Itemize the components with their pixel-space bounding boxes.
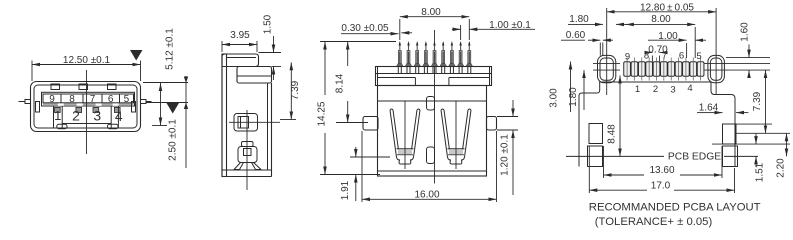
- extension 3.95 left: [221, 41, 223, 52]
- pad center ticks: [627, 58, 701, 81]
- body left edge: [221, 54, 223, 177]
- dimension 7.39 line (view2): [290, 62, 292, 119]
- svg-text:1.80: 1.80: [569, 14, 589, 25]
- svg-text:6: 6: [108, 94, 114, 105]
- dimension 8.14 line upper: [347, 42, 349, 67]
- extension 13.60 right: [721, 146, 723, 178]
- datum triangle top: [130, 50, 143, 61]
- body view3: [378, 86, 487, 177]
- dimension 8.48 line: [619, 76, 621, 157]
- peg body: [238, 147, 257, 163]
- peg top bar: [242, 142, 254, 147]
- svg-text:8: 8: [69, 94, 75, 105]
- dimension 8.14 line lower: [347, 101, 349, 123]
- band lower line left: [378, 77, 416, 79]
- pin separator 1: [60, 94, 62, 103]
- dimension 14.25 line lower: [324, 133, 326, 175]
- pcb edge line left: [566, 155, 664, 157]
- flange: [222, 54, 227, 177]
- latch window inner: [238, 117, 249, 129]
- left tulip window: [398, 149, 412, 154]
- extension line shell top right: [143, 82, 188, 84]
- dimension 13.60 line: [604, 174, 645, 176]
- dimension 0.30 leader right: [401, 32, 412, 34]
- top dimple 1: [51, 84, 60, 90]
- dimension 14.25 line upper: [324, 42, 326, 96]
- tongue inner band: [43, 94, 134, 103]
- extension oval top right: [726, 57, 770, 59]
- dimension 8.00 line (view4): [626, 23, 695, 25]
- dimension 1.20 upper arrow: [512, 100, 514, 117]
- extension 17.0 left: [588, 146, 590, 193]
- svg-text:5.12 ±0.1: 5.12 ±0.1: [165, 28, 176, 70]
- shell band: [376, 67, 492, 86]
- tongue outer: [42, 92, 135, 106]
- svg-text:3.00: 3.00: [549, 88, 560, 108]
- contact square 2: [76, 107, 82, 112]
- right mount pad: [723, 124, 737, 144]
- extension tulip bottom: [350, 156, 390, 158]
- extension 1.51: [712, 143, 790, 145]
- pin separator 3: [101, 94, 103, 103]
- left oval centerline: [606, 8, 608, 95]
- center bracket upper: [427, 97, 435, 111]
- datum triangle side: [167, 103, 180, 114]
- extension 17.0 right: [734, 168, 736, 193]
- svg-text:7: 7: [90, 94, 96, 105]
- shell outer: [31, 82, 141, 132]
- extension tab top right: [497, 116, 518, 118]
- svg-text:1: 1: [54, 108, 61, 123]
- extension line left: [31, 61, 33, 82]
- svg-text:1: 1: [635, 84, 640, 95]
- dimension 1.80 top arrow left: [594, 23, 603, 25]
- bottom dimple pill left: [57, 124, 67, 128]
- extension 2.20: [736, 132, 790, 134]
- dimension 3.95 line: [222, 44, 257, 46]
- pin 8: [457, 41, 464, 66]
- dimension 0.70 leader: [651, 56, 653, 63]
- dimension 1.20 lower arrow: [512, 130, 514, 140]
- svg-text:8.48: 8.48: [607, 124, 618, 144]
- svg-text:5: 5: [696, 51, 701, 62]
- left board lock tab: [363, 117, 378, 131]
- left spring stub: [25, 100, 31, 104]
- arrow 2.50 upper: [184, 77, 188, 84]
- svg-text:0.70: 0.70: [648, 45, 668, 56]
- svg-text:8.00: 8.00: [651, 14, 671, 25]
- left tulip centerline: [404, 101, 406, 169]
- band lower line right: [449, 77, 490, 79]
- dimension 1.80 left line: [583, 70, 585, 110]
- right board lock tab: [487, 117, 497, 131]
- dimension 0.60 leader: [561, 39, 585, 41]
- svg-text:1.51: 1.51: [755, 162, 766, 182]
- right tulip window: [449, 149, 463, 154]
- svg-text:9: 9: [625, 52, 630, 63]
- center bracket lower: [427, 147, 435, 164]
- svg-text:17.0: 17.0: [651, 181, 671, 192]
- extension pad top right: [736, 123, 772, 125]
- dimension 1.00 leader right: [469, 28, 535, 30]
- oval waist lines left: [593, 62, 620, 64]
- body bottom inner: [378, 170, 487, 172]
- pin 7: [449, 41, 456, 66]
- pin separator 4: [119, 94, 121, 103]
- solder pads: [624, 62, 704, 77]
- extension line 5.12 bottom: [152, 125, 167, 127]
- svg-text:14.25: 14.25: [317, 101, 328, 126]
- svg-text:6: 6: [679, 51, 684, 62]
- extension pin8: [460, 25, 462, 40]
- pocket left wall 2: [61, 106, 63, 128]
- peg left leg: [234, 163, 244, 170]
- dimension 2.20 line: [786, 133, 788, 156]
- extension bar top: [272, 66, 282, 68]
- svg-text:7.39: 7.39: [290, 80, 301, 100]
- tongue bottom edge: [43, 103, 134, 106]
- pin 9: [466, 41, 473, 66]
- svg-text:1.50: 1.50: [263, 14, 274, 34]
- dimension 1.91 lower arrow: [355, 175, 357, 202]
- pin 2: [405, 41, 412, 66]
- dimension 1.60 lower arrow: [748, 70, 750, 76]
- pin 3: [414, 41, 421, 66]
- dimension 0.60 arrow left: [588, 39, 600, 41]
- dimension 1.00 arrow right: [695, 39, 706, 41]
- extension 8.14 bottom: [336, 122, 368, 124]
- pcb edge line right: [724, 155, 758, 157]
- latch centerline: [229, 121, 280, 123]
- extension 1.00 line: [686, 43, 688, 58]
- svg-text:4: 4: [687, 83, 692, 94]
- dimension 0.70 arrow right: [660, 52, 667, 54]
- pin 4: [423, 41, 430, 66]
- left edge notch: [588, 146, 603, 167]
- extension line right: [140, 61, 142, 82]
- dimension 1.20 tail: [512, 140, 514, 196]
- dimension 3.00 line: [570, 62, 572, 113]
- top dimple 3: [108, 84, 117, 90]
- extension 7.39 bottom: [280, 119, 296, 121]
- bar mid line: [237, 75, 272, 77]
- pin 6: [440, 41, 447, 66]
- left oval outer: [598, 55, 616, 82]
- extension 13.60 left: [603, 146, 605, 178]
- dimension 0.60 arrow right: [603, 39, 613, 41]
- extension 3.95 right: [256, 41, 258, 52]
- dimension 8.00 line (view3): [400, 16, 470, 18]
- extension cap top: [259, 52, 282, 54]
- svg-text:8.14: 8.14: [335, 73, 346, 93]
- dimension 7.39 line (view4): [765, 70, 767, 133]
- dimension 1.80 top leader: [568, 23, 594, 25]
- right spring stub: [141, 100, 147, 104]
- top dimple 2: [79, 84, 88, 90]
- top bar: [237, 67, 272, 84]
- extension 8.00 view4 right: [694, 27, 696, 58]
- body bottom line: [222, 169, 272, 171]
- svg-text:1.80: 1.80: [568, 87, 579, 107]
- svg-text:2.20: 2.20: [776, 158, 787, 178]
- extension pin tips: [320, 41, 396, 43]
- band mid line: [376, 73, 492, 75]
- extension line latch right: [146, 102, 188, 104]
- contact square 4: [114, 107, 120, 112]
- svg-text:2: 2: [72, 108, 80, 124]
- extension 16.00 right: [496, 131, 498, 202]
- svg-text:1.60: 1.60: [740, 22, 751, 42]
- dimension 1.51 upper arrow: [755, 133, 757, 144]
- svg-text:2.50 ±0.1: 2.50 ±0.1: [168, 119, 179, 161]
- svg-text:PCB EDGE: PCB EDGE: [668, 152, 721, 163]
- dimension 0.30 leader left: [341, 33, 399, 35]
- oval waist lines right: [703, 62, 770, 64]
- right inner spring: [132, 102, 136, 113]
- dimension 17.0 line: [589, 189, 647, 191]
- left stub whisker: [19, 101, 26, 103]
- band center notch: [414, 78, 416, 86]
- extension 8.00 left: [399, 19, 401, 40]
- pin separator 2: [82, 94, 84, 103]
- pocket right wall 1: [110, 106, 112, 128]
- pocket right wall 2: [117, 106, 119, 128]
- extension 8.00 right: [468, 19, 470, 40]
- dimension 1.00 leader left: [452, 28, 461, 30]
- left mount pad: [589, 124, 603, 144]
- svg-text:5: 5: [124, 94, 130, 105]
- dimension 1.60 upper arrow: [748, 45, 750, 58]
- dimension 1.80 top arrow right: [616, 23, 628, 25]
- extension 0.60 lines: [599, 43, 601, 56]
- svg-text:0.30 ±0.05: 0.30 ±0.05: [341, 23, 389, 34]
- body right edge inner: [267, 83, 269, 170]
- extension 16.00 left: [361, 131, 363, 202]
- dimension 1.64 arrow left: [697, 112, 710, 114]
- footprint outline: [579, 82, 735, 167]
- pin 1: [396, 41, 403, 66]
- svg-text:7.39: 7.39: [752, 91, 763, 111]
- svg-text:9: 9: [49, 94, 55, 105]
- cavity floor line: [62, 123, 111, 125]
- dimension 2.50 line: [185, 76, 187, 168]
- dimension 1.50 lower arrow: [273, 67, 275, 81]
- svg-text:1.20 ±0.1: 1.20 ±0.1: [500, 134, 511, 176]
- band inner right: [489, 67, 491, 86]
- extension tab bottom right: [497, 129, 518, 131]
- latch window outer: [234, 114, 258, 132]
- right stub whisker: [146, 101, 152, 103]
- svg-text:1.91: 1.91: [340, 180, 351, 200]
- svg-text:1.64: 1.64: [699, 103, 719, 114]
- band inner left: [377, 67, 379, 86]
- right oval outer: [708, 55, 725, 82]
- svg-text:RECOMMANDED PCBA LAYOUT: RECOMMANDED PCBA LAYOUT: [589, 202, 761, 214]
- centerline view2: [246, 110, 248, 190]
- dimension 12.50 line: [32, 64, 141, 66]
- svg-text:3: 3: [670, 85, 675, 96]
- peg head: [244, 149, 252, 156]
- body seam: [378, 100, 487, 102]
- pin slot lines: [398, 67, 471, 74]
- body bottom seam: [222, 176, 272, 178]
- dimension 12.80 line: [607, 11, 716, 13]
- svg-text:3: 3: [93, 108, 101, 124]
- body right edge outer: [271, 83, 273, 177]
- svg-text:0.60: 0.60: [566, 30, 586, 41]
- right oval inner: [710, 58, 722, 80]
- centerline view1: [86, 70, 88, 154]
- svg-text:(TOLERANCE+ ± 0.05): (TOLERANCE+ ± 0.05): [595, 216, 713, 228]
- peg right leg: [252, 163, 262, 170]
- dimension 16.00 line: [362, 198, 497, 200]
- dimension 0.70 arrow left: [646, 52, 653, 54]
- dimension 1.00 arrow left: [648, 39, 687, 41]
- latch inner wall: [240, 117, 242, 129]
- pocket left wall 1: [53, 106, 55, 128]
- svg-text:3.95: 3.95: [230, 30, 250, 41]
- centerline view3: [434, 30, 436, 184]
- shell inner line: [34, 85, 137, 128]
- tongue edge notches: [58, 103, 119, 106]
- extension body bottom left: [320, 174, 380, 176]
- svg-text:2: 2: [653, 84, 658, 95]
- arrow 2.50 lower: [184, 103, 188, 110]
- left oval inner: [600, 58, 613, 80]
- cap inner line: [227, 57, 257, 59]
- dimension 5.12 line: [160, 83, 162, 126]
- dimension 1.51 lower arrow: [755, 156, 757, 167]
- contact square 3: [93, 107, 99, 112]
- svg-text:4: 4: [115, 108, 123, 124]
- dimension 1.64 arrow right: [736, 112, 748, 114]
- pin 5: [431, 41, 438, 66]
- svg-text:13.60: 13.60: [649, 165, 674, 176]
- bottom dimple pill right: [108, 124, 119, 128]
- right edge notch: [723, 146, 738, 167]
- right oval centerline: [715, 8, 717, 95]
- cap: [222, 54, 259, 67]
- right tulip: [441, 109, 471, 164]
- right tulip centerline: [455, 101, 457, 169]
- dimension 1.50 upper arrow: [273, 36, 275, 53]
- left inner spring: [36, 102, 40, 113]
- dimension 1.91 upper arrow: [355, 147, 357, 157]
- left tulip: [390, 109, 420, 164]
- contact square 1: [55, 107, 61, 112]
